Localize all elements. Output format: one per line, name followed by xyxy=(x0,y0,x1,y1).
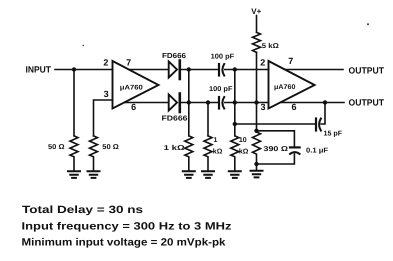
svg-text:10: 10 xyxy=(239,137,247,144)
svg-text:Input frequency = 300 Hz to 3: Input frequency = 300 Hz to 3 MHz xyxy=(22,220,232,232)
wire C4 bottom to R7 bottom xyxy=(257,154,295,164)
svg-text:FD666: FD666 xyxy=(162,51,186,60)
node pin3 junction xyxy=(254,100,258,104)
wire R6 down through rows to R7 xyxy=(256,52,258,131)
svg-text:1: 1 xyxy=(214,137,218,144)
svg-text:kΩ: kΩ xyxy=(239,148,249,156)
diode D2 FD666 xyxy=(169,95,177,111)
wire C2 to U2 pin3 xyxy=(225,102,269,104)
node D2 tap junction xyxy=(206,100,210,104)
resistor R3 1 kohm xyxy=(185,136,193,171)
svg-text:INPUT: INPUT xyxy=(26,65,52,75)
wire C1 to U2 pin2 xyxy=(225,69,269,71)
svg-text:2: 2 xyxy=(103,58,108,68)
ground under R3 xyxy=(183,171,195,178)
ground under R4 xyxy=(202,171,214,178)
wire U2 pin7 to OUTPUT xyxy=(285,69,344,71)
svg-text:μA760: μA760 xyxy=(120,84,143,91)
node feedback junction on output xyxy=(323,100,327,104)
wire U2 pin6 to OUTPUT xyxy=(282,102,345,104)
svg-text:kΩ: kΩ xyxy=(213,148,223,156)
ground under R2 xyxy=(88,171,100,178)
svg-text:0.1 μF: 0.1 μF xyxy=(306,148,329,155)
wire D1 junction down to R3 xyxy=(188,70,190,136)
svg-text:7: 7 xyxy=(288,56,293,66)
wire D2 to C2 xyxy=(181,102,219,104)
node R7 top junction xyxy=(254,129,258,133)
svg-text:μA760: μA760 xyxy=(274,84,296,91)
svg-text:FD666: FD666 xyxy=(162,114,188,123)
wire U1 pin7 output to D1 xyxy=(129,69,169,71)
capacitor C2 100 pF xyxy=(218,97,220,109)
speck top right xyxy=(367,23,369,25)
node R7 bottom junction xyxy=(254,162,258,166)
resistor R4 1 kohm xyxy=(204,136,212,171)
svg-text:15 pF: 15 pF xyxy=(324,131,343,138)
wire V+ down to R6 xyxy=(256,16,258,33)
node D1 junction xyxy=(187,67,191,71)
wire U1 pin6 output to D2 xyxy=(125,102,169,104)
svg-text:50 Ω: 50 Ω xyxy=(48,144,65,151)
wire input junction down to R1 xyxy=(73,70,75,136)
svg-text:OUTPUT: OUTPUT xyxy=(349,65,385,75)
svg-text:3: 3 xyxy=(104,89,109,99)
ground under R1 xyxy=(68,171,80,178)
node C1 output junction xyxy=(233,67,237,71)
node row B crossing at 234.8 xyxy=(233,100,237,104)
wire D2 tap down to R4 xyxy=(207,103,209,136)
svg-text:6: 6 xyxy=(131,102,136,112)
svg-text:V+: V+ xyxy=(251,7,261,16)
svg-text:6: 6 xyxy=(292,102,297,112)
capacitor C4 0.1 uF xyxy=(290,146,300,148)
capacitor C1 100 pF xyxy=(218,64,220,76)
diode D1 FD666 xyxy=(169,62,177,78)
resistor R7 390 ohm xyxy=(253,132,261,171)
resistor R1 50 ohm xyxy=(70,136,78,171)
resistor R6 5 kohm xyxy=(253,32,261,52)
svg-text:50 Ω: 50 Ω xyxy=(102,144,119,151)
svg-text:100 pF: 100 pF xyxy=(211,54,235,61)
svg-text:3: 3 xyxy=(261,102,266,112)
svg-text:7: 7 xyxy=(126,58,131,68)
resistor R5 10 kohm xyxy=(231,136,239,171)
wire U1 pin3 elbow xyxy=(94,100,113,136)
wire D1 to C1 xyxy=(181,69,219,71)
node D2 row crossing junction xyxy=(187,100,191,104)
svg-text:100 pF: 100 pF xyxy=(209,86,233,93)
node feedback tap at 234.8 xyxy=(233,122,237,126)
capacitor C3 15 pF xyxy=(315,119,317,131)
svg-text:2: 2 xyxy=(260,57,265,67)
svg-text:OUTPUT: OUTPUT xyxy=(349,98,385,108)
wire C1 junction down to R5 xyxy=(234,70,236,136)
wire R7 top to C4 xyxy=(257,131,295,147)
op-amp U1 uA760 xyxy=(113,61,159,109)
wire feedback down and left to C3 xyxy=(321,103,325,125)
svg-text:390 Ω: 390 Ω xyxy=(264,146,289,153)
wire C3 left to node xyxy=(235,123,316,125)
svg-text:Minimum input voltage = 20 mVp: Minimum input voltage = 20 mVpk-pk xyxy=(22,237,226,249)
node input junction xyxy=(72,67,76,71)
ground under R5 xyxy=(229,171,241,178)
resistor R2 50 ohm xyxy=(90,136,98,171)
ground under R7 xyxy=(251,171,263,178)
svg-text:Total Delay = 30 ns: Total Delay = 30 ns xyxy=(22,204,143,216)
speck left xyxy=(83,45,85,47)
svg-text:1 kΩ: 1 kΩ xyxy=(164,144,186,152)
svg-text:5 kΩ: 5 kΩ xyxy=(262,42,279,50)
op-amp U2 uA760 xyxy=(269,61,315,109)
wire input to U1 pin2 xyxy=(55,69,113,71)
